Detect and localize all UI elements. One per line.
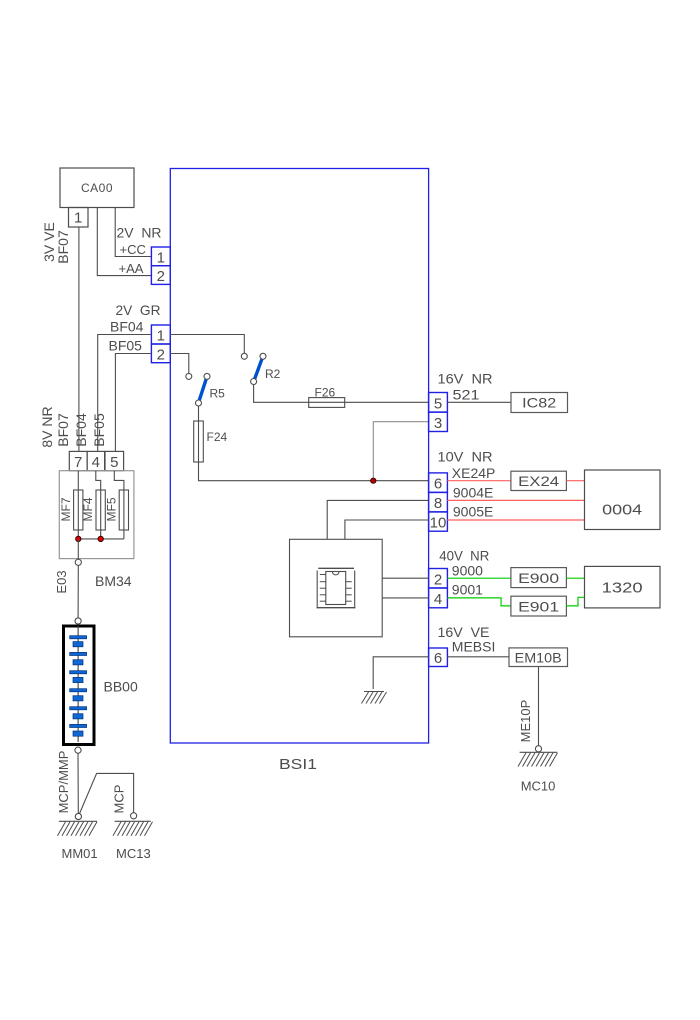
svg-text:9001: 9001 xyxy=(452,581,483,597)
wire pin7 through MF7 xyxy=(77,471,79,539)
wire BF04 xyxy=(98,335,152,452)
pin 7 BM34 xyxy=(69,451,87,471)
svg-text:2V NR: 2V NR xyxy=(117,225,162,241)
box IC82 xyxy=(511,393,568,413)
junction dot xyxy=(371,478,376,483)
fuse F26 xyxy=(309,385,345,407)
internal module box xyxy=(290,539,383,637)
svg-text:40V NR: 40V NR xyxy=(439,548,489,564)
svg-text:4: 4 xyxy=(92,454,100,471)
box BM34 xyxy=(59,471,134,559)
svg-text:1: 1 xyxy=(157,249,165,266)
svg-text:MM01: MM01 xyxy=(62,846,98,861)
svg-text:2: 2 xyxy=(157,346,165,363)
wire pin6 MEBSI to internal ground xyxy=(373,657,428,689)
svg-text:10V NR: 10V NR xyxy=(438,449,493,465)
svg-text:R5: R5 xyxy=(210,387,226,401)
svg-text:1320: 1320 xyxy=(602,580,643,597)
svg-text:CA00: CA00 xyxy=(81,181,113,195)
svg-text:BF05: BF05 xyxy=(109,338,143,354)
box 1320 xyxy=(585,566,661,608)
svg-text:MC13: MC13 xyxy=(116,846,151,861)
svg-text:XE24P: XE24P xyxy=(452,465,496,481)
svg-text:+AA: +AA xyxy=(119,261,144,276)
wire module to pin4 xyxy=(382,597,428,599)
junction dot MF4 xyxy=(98,536,103,541)
svg-text:1: 1 xyxy=(157,328,165,345)
svg-text:ME10P: ME10P xyxy=(518,700,533,743)
wire pin10 to 0004 red xyxy=(447,519,584,521)
wire BM34 output xyxy=(77,539,79,559)
svg-text:8: 8 xyxy=(434,495,442,512)
svg-text:BM34: BM34 xyxy=(95,573,132,589)
pin 4 BM34 xyxy=(87,451,105,471)
node R2 fixed contact xyxy=(241,353,247,359)
wire BF05 xyxy=(115,354,151,452)
box EM10B xyxy=(509,648,568,667)
svg-text:6: 6 xyxy=(434,650,442,667)
svg-text:R2: R2 xyxy=(265,367,281,381)
pin 6 xyxy=(429,473,448,493)
svg-text:6: 6 xyxy=(434,476,442,493)
pin 5 xyxy=(429,393,448,413)
wire +AA xyxy=(97,208,151,276)
node battery top xyxy=(75,618,81,624)
switch R2 xyxy=(251,353,281,384)
wire branch to MC13 xyxy=(80,773,134,813)
pin 6 MEBSI xyxy=(429,648,448,667)
wire fuse bus xyxy=(78,538,124,540)
svg-text:BB00: BB00 xyxy=(104,679,138,695)
svg-text:4: 4 xyxy=(434,591,442,608)
pin 2 xyxy=(429,569,448,589)
wire pin2 to R5 contact xyxy=(170,354,189,374)
switch R5 xyxy=(196,373,226,406)
svg-text:8V NR: 8V NR xyxy=(39,406,55,447)
wire EM10B to MC10 ground xyxy=(538,667,540,746)
wire F26 to pin 5 xyxy=(345,401,429,403)
svg-text:5: 5 xyxy=(110,454,118,471)
wire R5 to F24 xyxy=(198,406,200,421)
box E900 xyxy=(511,568,567,588)
svg-text:2: 2 xyxy=(157,268,165,285)
wire pin6 to EX24 red xyxy=(447,480,511,482)
box 0004 xyxy=(585,470,661,530)
svg-text:3: 3 xyxy=(434,415,442,432)
svg-text:0004: 0004 xyxy=(602,502,642,519)
wire pin4 through MF4 xyxy=(96,471,101,539)
node R5 fixed contact xyxy=(186,373,192,379)
ground MC10 xyxy=(518,752,558,793)
wire BF07 CA00 pin1 to BM34 pin7 xyxy=(78,227,80,451)
node MC13 terminal xyxy=(131,813,137,819)
pin 4 xyxy=(429,588,448,608)
BSI1 connector pin 1 (+CC) xyxy=(151,247,170,266)
wire pin5 to IC82 xyxy=(447,401,511,403)
BSI1 connector pin 1 (BF04) xyxy=(151,325,170,345)
svg-text:9005E: 9005E xyxy=(453,504,493,520)
wire R2 to F26 xyxy=(254,385,309,403)
pin 5 BM34 xyxy=(105,451,124,471)
wire pin4 to E901 green xyxy=(447,598,511,606)
BSI1 box xyxy=(170,169,428,744)
svg-text:F26: F26 xyxy=(315,385,336,399)
svg-text:MF5: MF5 xyxy=(105,497,119,521)
svg-text:MF4: MF4 xyxy=(81,497,95,521)
node battery bottom xyxy=(75,747,81,753)
svg-text:2: 2 xyxy=(434,571,442,588)
pin 8 xyxy=(429,492,448,512)
wire pin10 to module xyxy=(345,520,429,539)
wire pin5 through MF5 xyxy=(114,471,124,539)
svg-text:10: 10 xyxy=(430,515,447,532)
fuse MF4 xyxy=(81,490,105,530)
svg-text:EM10B: EM10B xyxy=(515,649,562,665)
ground internal BSI xyxy=(362,692,387,704)
wire pin8 to module xyxy=(327,500,428,539)
node E03 xyxy=(75,559,81,565)
junction dot MF7 xyxy=(76,536,81,541)
svg-text:E901: E901 xyxy=(518,599,559,615)
svg-text:9004E: 9004E xyxy=(453,485,493,501)
wire EX24 to 0004 red xyxy=(566,480,584,482)
svg-text:MF7: MF7 xyxy=(59,497,73,521)
wire E901 to 1320 green xyxy=(566,597,584,606)
svg-text:521: 521 xyxy=(453,387,480,403)
svg-text:E900: E900 xyxy=(518,570,559,586)
svg-text:MEBSI: MEBSI xyxy=(452,639,496,655)
svg-text:MCP/MMP: MCP/MMP xyxy=(56,751,71,814)
ground MC13 xyxy=(113,821,153,861)
svg-text:EX24: EX24 xyxy=(518,473,559,489)
wire E900 to 1320 green xyxy=(566,577,584,579)
node MM01 terminal xyxy=(75,813,81,819)
fuse MF5 xyxy=(105,490,129,530)
box EX24 xyxy=(511,471,567,490)
svg-text:BF04: BF04 xyxy=(73,413,89,447)
svg-text:BF05: BF05 xyxy=(91,413,107,447)
wire E03 to battery xyxy=(77,565,79,618)
svg-text:BF07: BF07 xyxy=(55,413,71,447)
svg-text:+CC: +CC xyxy=(120,242,146,257)
svg-text:16V NR: 16V NR xyxy=(438,371,493,387)
wire F24 to pin 6 xyxy=(199,462,429,481)
svg-text:BF07: BF07 xyxy=(55,230,71,264)
wire +CC xyxy=(115,208,151,257)
svg-text:E03: E03 xyxy=(54,570,69,593)
BSI1 connector pin 2 (BF05) xyxy=(151,344,170,363)
svg-text:9000: 9000 xyxy=(452,563,483,579)
svg-text:5: 5 xyxy=(434,395,442,412)
fuse F24 xyxy=(194,421,228,462)
wire module to pin2 xyxy=(382,577,428,579)
svg-text:MC10: MC10 xyxy=(521,779,556,794)
battery BB00 xyxy=(64,624,95,744)
wire battery to MM01 xyxy=(77,753,79,813)
pin 10 xyxy=(429,512,448,532)
fuse MF7 xyxy=(59,490,83,530)
box E901 xyxy=(511,596,567,616)
connector CA00 xyxy=(60,168,134,208)
svg-text:IC82: IC82 xyxy=(522,395,556,411)
svg-text:MCP: MCP xyxy=(112,785,127,814)
svg-text:BSI1: BSI1 xyxy=(279,756,317,773)
pin 3 xyxy=(429,412,448,432)
svg-text:F24: F24 xyxy=(207,430,228,444)
svg-text:2V GR: 2V GR xyxy=(116,302,161,318)
svg-text:BF04: BF04 xyxy=(110,319,144,335)
ground MM01 xyxy=(58,821,98,861)
wire pin2 to E900 green xyxy=(447,577,511,579)
pin 1 of CA00 xyxy=(69,208,89,228)
BSI1 connector pin 2 (+AA) xyxy=(151,266,170,285)
svg-text:1: 1 xyxy=(74,210,82,227)
svg-text:7: 7 xyxy=(74,454,82,471)
wire pin6 to EM10B xyxy=(447,656,509,658)
wire junction to pin 3 xyxy=(373,422,428,481)
wire pin8 to 0004 red xyxy=(447,499,584,501)
IC chip symbol xyxy=(317,568,356,608)
node MC10 terminal xyxy=(535,746,541,752)
wire pin1 to R2 contact xyxy=(170,335,244,354)
